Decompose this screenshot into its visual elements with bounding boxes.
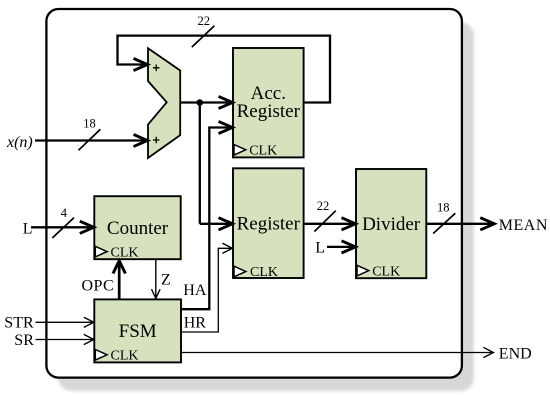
Counter block (94, 196, 180, 259)
svg-text:CLK: CLK (250, 265, 278, 280)
svg-text:4: 4 (61, 206, 68, 220)
wire L into Counter (31, 226, 93, 228)
Register block (233, 168, 304, 278)
wire HA from FSM to Acc Register (181, 128, 231, 310)
svg-text:22: 22 (317, 199, 330, 213)
wire STR input (36, 321, 93, 323)
arrowhead into Register HR input (222, 243, 232, 253)
Divider clock triangle (357, 265, 369, 276)
arrowhead into Divider L input (342, 241, 356, 253)
svg-text:18: 18 (437, 201, 450, 215)
svg-text:HR: HR (184, 315, 207, 332)
wire HR from FSM to Register (181, 248, 232, 332)
FSM clock triangle (95, 350, 107, 361)
wire Divider output MEAN (426, 223, 492, 225)
Counter clock triangle (95, 246, 107, 257)
junction node on adder output (197, 99, 204, 106)
svg-text:STR: STR (4, 315, 34, 332)
arrowhead SR into FSM (84, 334, 94, 344)
arrowhead into adder upper input (134, 58, 148, 70)
svg-text:Register: Register (237, 214, 301, 235)
svg-text:Counter: Counter (107, 218, 169, 239)
svg-text:SR: SR (14, 332, 34, 349)
svg-text:FSM: FSM (119, 321, 157, 342)
wire OPC from FSM up to Counter (118, 263, 121, 300)
svg-text:OPC: OPC (82, 277, 115, 294)
adder plus bottom (153, 137, 160, 144)
wire SR input (36, 339, 93, 341)
svg-text:MEAN: MEAN (499, 217, 548, 234)
wire into Register data input (200, 223, 231, 225)
enclosure box (46, 9, 462, 378)
Acc. Register clock triangle (234, 145, 246, 156)
arrowhead OPC into Counter bottom (113, 261, 125, 274)
svg-text:Register: Register (237, 101, 301, 122)
arrowhead into Register data input (219, 218, 233, 230)
Register clock triangle (234, 266, 246, 277)
svg-text:CLK: CLK (249, 144, 277, 159)
bus slash 18 on MEAN (433, 213, 455, 233)
svg-text:CLK: CLK (111, 245, 139, 260)
arrowhead into Counter L input (80, 221, 94, 233)
svg-text:x(n): x(n) (6, 134, 33, 151)
arrowhead STR into FSM (84, 317, 94, 327)
svg-text:22: 22 (198, 14, 211, 28)
arrowhead into Acc Register HA input (219, 121, 233, 133)
svg-text:CLK: CLK (372, 264, 400, 279)
bus slash 22 between Register and Divider (314, 211, 335, 232)
Acc. Register block (233, 48, 304, 157)
svg-text:L: L (315, 239, 325, 256)
wire L into Divider (327, 246, 354, 248)
Divider block (356, 169, 426, 278)
bus slash 22 on feedback (192, 26, 215, 47)
svg-text:END: END (499, 345, 532, 362)
arrowhead Z into FSM top (152, 289, 161, 298)
wire x(n) input (35, 139, 146, 141)
bus slash 18 on x(n) (79, 129, 101, 150)
wire END output (181, 352, 492, 354)
FSM block (94, 299, 181, 362)
wire feedback Acc output to adder upper input (118, 36, 331, 103)
adder plus top (153, 65, 160, 72)
svg-text:Z: Z (161, 271, 171, 288)
arrowhead into Divider input (342, 218, 356, 230)
arrowhead END (483, 347, 493, 357)
svg-text:HA: HA (183, 282, 207, 299)
svg-text:18: 18 (83, 117, 96, 131)
arrowhead into Acc Register data input (219, 96, 233, 108)
arrowhead MEAN (480, 218, 494, 230)
svg-text:L: L (23, 220, 33, 237)
adder U1 (148, 48, 180, 158)
bus slash 4 on L (52, 218, 74, 238)
wire Z from Counter down to FSM (155, 259, 157, 297)
svg-text:CLK: CLK (111, 349, 139, 364)
wire Register output to Divider (304, 223, 354, 225)
svg-text:Divider: Divider (362, 214, 421, 235)
wire junction down to Register (199, 103, 201, 224)
arrowhead into adder lower input (134, 134, 148, 146)
wire adder output to Acc Register (180, 101, 231, 103)
